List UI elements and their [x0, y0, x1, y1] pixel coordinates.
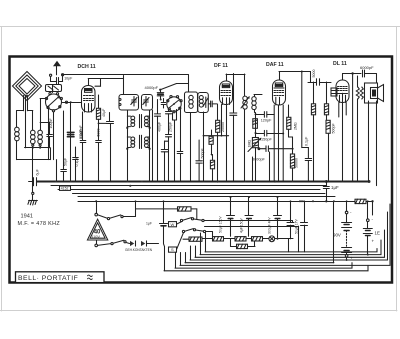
wire det column [255, 113, 257, 138]
harness nest line 7 [175, 263, 352, 268]
wire bottom join [25, 147, 50, 149]
title box BELL PORTATIF [16, 272, 105, 283]
IF transformer pair [126, 110, 150, 182]
svg-text:5000pF: 5000pF [252, 158, 266, 162]
svg-text:1MΩ: 1MΩ [248, 140, 252, 148]
svg-text:25000: 25000 [221, 122, 225, 132]
tuning gang box [46, 85, 62, 92]
resistor chain box 1 [202, 237, 224, 241]
wire can B secondary [152, 110, 154, 182]
bus HT thick [37, 181, 369, 183]
svg-text:-: - [372, 217, 374, 222]
bus line 6 [78, 201, 373, 203]
wire speaker return [352, 74, 354, 182]
wire DCH11 screen [95, 79, 101, 87]
svg-text:6μF: 6μF [35, 168, 39, 175]
capacitor 500pF IF2 [196, 140, 202, 182]
wire drops to bus [111, 101, 377, 186]
mixer section of DCH11 [45, 85, 62, 112]
wire HT top rail [63, 75, 189, 93]
IF can 1 box B [142, 95, 153, 111]
capacitor 1uF elco [160, 201, 168, 243]
svg-text:1μF: 1μF [146, 222, 152, 226]
antenna terminal left [50, 74, 52, 76]
capacitor 0.1uF DL [305, 148, 311, 182]
svg-text:DL 11: DL 11 [333, 61, 347, 67]
resistor 50000 [290, 148, 294, 182]
junction dots bus [55, 180, 374, 203]
wire DAF11 top [279, 72, 311, 83]
svg-text:50pF: 50pF [63, 157, 67, 166]
wire DAF screen column [301, 71, 309, 148]
bus line 5 [78, 196, 335, 198]
antenna coil L2 [27, 111, 35, 148]
boxed label 4152 [60, 186, 71, 191]
boxed contact W [169, 222, 177, 227]
svg-text:300μF 40V: 300μF 40V [268, 217, 272, 234]
svg-text:S: S [171, 247, 174, 252]
harness left verticals [164, 233, 206, 271]
antenna terminal right [62, 74, 64, 76]
svg-text:250pF: 250pF [169, 121, 173, 132]
tube DL11 [331, 80, 349, 103]
IF coil 3 [241, 94, 250, 113]
wire to ground [32, 148, 34, 200]
harness nest line 5 [185, 262, 334, 264]
dial lamp [269, 236, 289, 252]
socket circle osc [167, 96, 182, 182]
resistor 25000 [96, 95, 100, 123]
capacitor 0.1uF anode [107, 122, 114, 148]
wave glyph [88, 272, 93, 279]
resistor chain box 3 [246, 237, 269, 241]
capacitor grid DL11 [308, 79, 331, 85]
resistor DL11 screen [324, 82, 328, 120]
harness wire a [204, 221, 292, 223]
wire DL11 top [343, 72, 362, 80]
jack plug 1 [130, 241, 136, 246]
harness wire c [205, 226, 299, 252]
svg-text:50μF 150V: 50μF 150V [219, 216, 223, 233]
volume potentiometer 1M [248, 138, 261, 182]
capacitor 5000pF [266, 146, 294, 152]
resistor DF11 grid [210, 155, 214, 182]
resistor 4752 [209, 130, 213, 155]
wave switch cluster [177, 218, 206, 250]
wire slant 4000pF [159, 84, 188, 91]
harness nest line 6 [180, 204, 390, 265]
capacitor 10pF [51, 76, 63, 85]
svg-text:0,1μF: 0,1μF [305, 136, 309, 146]
capacitor 250pF [166, 108, 172, 182]
svg-text:BELL· PORTATIF: BELL· PORTATIF [18, 275, 78, 282]
svg-text:M.F. = 478 KHZ: M.F. = 478 KHZ [18, 221, 61, 227]
capacitor osc grid [67, 132, 74, 137]
svg-text:110V: 110V [91, 235, 100, 239]
wire mixer left pin to coil [40, 99, 45, 114]
resistor DF11 screen [216, 104, 220, 182]
antenna arrow [53, 61, 61, 75]
svg-text:40μF: 40μF [102, 108, 106, 117]
svg-text:5000: 5000 [312, 70, 316, 78]
svg-text:50μF 17V: 50μF 17V [295, 218, 299, 234]
trimmer in can A [131, 97, 137, 107]
tube DF11 [220, 81, 233, 105]
junction dots bus crossings [63, 181, 369, 203]
wire mixer cathode drop [48, 109, 50, 160]
svg-text:0,1μF: 0,1μF [75, 156, 79, 166]
harness nest line 4 [190, 212, 388, 260]
harness nest line 1 [205, 249, 377, 252]
tube DCH11 [82, 86, 96, 113]
wire wiper [258, 148, 266, 150]
capacitor tracking [177, 110, 183, 182]
capacitor 50pF osc [61, 111, 67, 182]
svg-text:4μF 150V: 4μF 150V [240, 217, 244, 233]
svg-text:1μF: 1μF [331, 185, 339, 190]
battery 90V [342, 201, 353, 260]
capacitor screen DCH [80, 112, 86, 182]
wire loop lower [17, 148, 51, 160]
svg-text:6000pF: 6000pF [79, 125, 83, 138]
harness wire b [206, 232, 213, 237]
speaker [371, 85, 384, 102]
jack plug 2 [141, 241, 159, 246]
osc transformer pair [126, 135, 150, 150]
svg-text:DF 11: DF 11 [214, 63, 228, 69]
capacitor right 1 [287, 201, 294, 239]
bus line 3 [58, 189, 320, 191]
resistor DAF11 anode [287, 105, 293, 149]
terminal above triangle [95, 200, 98, 216]
trimmer in can B [143, 97, 149, 107]
capacitor right 2 [301, 201, 308, 252]
elco 300uF [274, 196, 282, 240]
resistor DL11 grid [311, 82, 315, 147]
svg-text:6000pF: 6000pF [360, 65, 374, 70]
capacitor osc pad [161, 141, 168, 182]
wire rail right drop [372, 201, 374, 215]
terminal below triangle [95, 240, 98, 247]
capacitor 100pF [40, 122, 52, 148]
svg-text:5000: 5000 [97, 129, 101, 137]
output transformer [365, 83, 378, 103]
resistor det 50000 [253, 113, 258, 129]
bus line 2 [51, 185, 326, 187]
wire mixer to grid [62, 101, 81, 103]
switch upper [98, 201, 136, 219]
resistor 500pF [326, 120, 330, 145]
antenna coil L3 [38, 113, 43, 148]
capacitor 6uF series [29, 178, 37, 186]
detector coil [252, 95, 262, 113]
svg-text:10pF: 10pF [64, 76, 73, 80]
loop antenna [13, 72, 42, 148]
capacitor cathode DCH [96, 123, 102, 181]
capacitor 1uF bus [323, 182, 329, 202]
harness nest line 3 [195, 230, 385, 257]
resistor chain box 2 [224, 237, 247, 241]
IF can 1 box A [119, 95, 139, 111]
elco 4uF 150V [245, 196, 253, 236]
svg-text:DAF 11: DAF 11 [266, 62, 284, 68]
harness nest line 2 [200, 240, 381, 255]
field coil zigzag [356, 76, 363, 110]
svg-text:90V: 90V [333, 233, 341, 238]
capacitor 150pF [256, 130, 285, 136]
svg-text:GEH.KONTAKTEN: GEH.KONTAKTEN [125, 248, 153, 252]
switch box right [355, 199, 366, 203]
capacitor osc grid [67, 133, 74, 137]
svg-text:DCH 11: DCH 11 [78, 64, 96, 70]
capacitor padder 400pF [155, 100, 161, 182]
capacitor 4000pF [157, 90, 164, 101]
wire DAF pin drops [274, 105, 283, 182]
capacitor DF grid [208, 101, 216, 107]
boxed contact S [169, 247, 177, 252]
svg-text:+: + [372, 239, 375, 244]
battery cell 1E [363, 201, 374, 254]
switch lower [98, 240, 130, 245]
schematic frame [10, 57, 393, 283]
bus line 4 [73, 193, 326, 195]
wire screen cap tee [98, 113, 110, 125]
wire DF cathode row [203, 105, 229, 137]
antenna coil L1 [15, 111, 24, 160]
harness nest line 8 [164, 265, 368, 270]
svg-text:1E: 1E [375, 231, 380, 236]
IF can 2 coil [185, 92, 198, 113]
capacitor 120pF [256, 112, 275, 118]
mains triangle 110V [87, 219, 107, 240]
wire DCH11 anode top [88, 76, 123, 95]
svg-text:150pF: 150pF [261, 137, 272, 141]
capacitor DF11 anode [230, 74, 237, 182]
wire DL grid lower [313, 147, 315, 182]
svg-text:50000: 50000 [295, 158, 299, 168]
svg-text:4152: 4152 [61, 187, 69, 191]
svg-text:-: - [350, 210, 352, 215]
svg-text:1941: 1941 [21, 214, 33, 220]
resistor heater boxed [183, 237, 202, 241]
svg-text:120pF: 120pF [261, 119, 272, 123]
svg-text:W: W [171, 222, 175, 227]
svg-text:500pF: 500pF [332, 123, 336, 134]
trimmer left of socket [161, 99, 166, 109]
elco 50uF 150V [227, 196, 235, 236]
wire osc drop [70, 102, 72, 181]
svg-text:100pF: 100pF [49, 118, 53, 129]
svg-text:400pF: 400pF [158, 121, 162, 132]
ground [28, 200, 38, 205]
wire DF11 top [226, 74, 245, 94]
tube DAF11 [273, 80, 286, 105]
capacitor 6000pF [363, 70, 377, 83]
wire mixer pin drop [54, 112, 57, 182]
resistor 7500 [231, 239, 256, 249]
grid coil DF11 [198, 93, 209, 113]
svg-text:2MΩ: 2MΩ [293, 122, 297, 130]
svg-text:4000pF: 4000pF [145, 85, 159, 90]
harness drop from bus [288, 200, 369, 262]
capacitor 0.1uF mid [73, 147, 79, 182]
resistor filament boxed [136, 207, 197, 220]
